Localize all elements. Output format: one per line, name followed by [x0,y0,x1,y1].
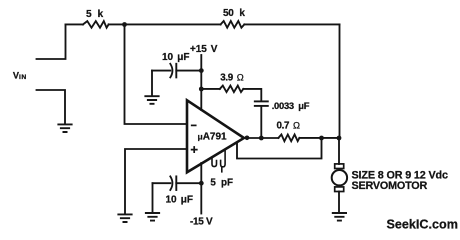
svg-text:SERVOMOTOR: SERVOMOTOR [352,180,428,192]
svg-text:-15 V: -15 V [190,216,213,227]
svg-text:VIN: VIN [13,71,27,81]
svg-text:+15 V: +15 V [190,44,218,55]
svg-text:μA791: μA791 [198,132,228,143]
svg-text:10 μF: 10 μF [166,195,193,206]
svg-text:3.9 Ω: 3.9 Ω [220,71,243,83]
svg-text:SeekIC.com: SeekIC.com [387,218,458,232]
svg-text:5 k: 5 k [86,9,103,20]
svg-text:.0033 μF: .0033 μF [272,100,310,111]
svg-text:5 pF: 5 pF [210,178,233,189]
svg-text:50 k: 50 k [223,8,245,19]
svg-text:10 μF: 10 μF [162,52,189,63]
svg-text:0.7 Ω: 0.7 Ω [277,120,300,132]
